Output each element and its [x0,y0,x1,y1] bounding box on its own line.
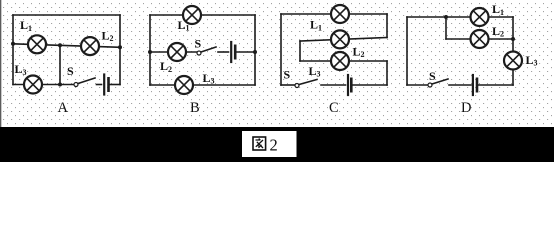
circuit C: wire left side [280,14,282,85]
circuit B: switch S [197,47,216,55]
circuit D: wire right upper vertical [512,17,514,39]
circuit D: switch S [428,79,448,87]
circuit B: wire bottom side [150,84,255,86]
circuit B: lamp L1 [183,6,201,24]
circuit A: wire center vertical [59,45,61,84]
circuit D: wire inner vertical [445,17,447,39]
circuit B: wire right side [254,15,256,85]
circuit B: node left junction [148,50,152,54]
circuit D: wire bottom middle segment [449,84,471,86]
circuit A: wire battery to corner [109,84,121,86]
circuit C: wire bottom left segment [281,84,295,86]
circuit D: lamp L2 [471,30,489,48]
svg-text:S: S [195,37,202,51]
svg-text:S: S [67,64,74,78]
circuit B: wire middle right segment [218,51,229,53]
circuit A: switch S [74,78,95,87]
circuit D: wire lamp L3 to bottom [512,70,514,86]
svg-text:S: S [284,68,291,82]
circuit C: wire right upper vertical [386,14,388,38]
circuit D: battery [473,75,477,95]
circuit D: node top junction [444,15,448,19]
circuit D: lamp L3 [504,52,522,70]
caption glyph tu (figure) [253,137,266,150]
circuit D: lamp L1 [471,8,489,26]
circuit A: node left junction [11,42,15,46]
svg-text:C: C [329,100,339,116]
circuit D: wire left side [406,17,408,85]
circuit D: wire second branch [446,38,513,40]
circuit A: node right junction [118,45,122,49]
circuit A: battery [104,75,108,95]
circuit C: switch S [295,80,317,88]
circuit A: lamp L3 [24,76,42,94]
circuit C: lamp L1 [331,5,349,23]
circuit D: wire bottom left segment [407,84,428,86]
circuit B: wire middle left segment [150,51,197,53]
circuit A: node center junction [58,43,62,47]
circuit B: wire top side [150,14,255,16]
circuit C: lamp L2 [331,30,349,48]
circuit D: node right junction [511,37,515,41]
circuit A: wire bottom right segment [97,84,102,86]
circuit A: wire bottom left segment [13,84,74,86]
circuit C: wire top side [281,13,387,15]
circuit C: wire left bracket vertical [299,41,301,61]
circuit C: lamp L3 [331,52,349,70]
caption box [242,131,297,157]
circuit C: wire third branch [300,60,387,62]
circuit C: wire bottom middle segment [321,84,346,86]
circuit D: wire battery to corner [477,84,513,86]
circuit A: wire left side [12,15,14,85]
circuit B: wire battery to right [235,51,255,53]
svg-text:A: A [58,100,69,116]
svg-text:D: D [461,100,471,116]
circuit C: battery [348,75,351,95]
circuit D: wire top side [407,16,513,18]
circuit A: lamp L2 [81,37,99,55]
circuit B: node right junction [253,50,257,54]
circuit B: battery [231,42,235,62]
circuit C: wire second branch [300,38,387,42]
scan border left edge [0,0,2,130]
circuit B: lamp L3 [175,76,193,94]
circuit C: wire battery to corner [351,84,387,86]
svg-text:B: B [190,100,200,116]
circuit B: lamp L2 [168,43,186,61]
circuit A: wire right side [119,15,121,85]
svg-text:S: S [429,69,436,83]
caption bar [0,127,554,162]
circuit A: wire top side [13,14,120,16]
circuit A: wire middle branch [13,44,120,48]
circuit C: wire right lower vertical [386,61,388,85]
circuit B: wire left side [149,15,151,85]
circuit A: lamp L1 [28,35,46,53]
circuit A: node bottom junction [58,83,62,87]
circuit D: wire right to lamp L3 [512,39,514,52]
svg-text:2: 2 [270,135,278,154]
